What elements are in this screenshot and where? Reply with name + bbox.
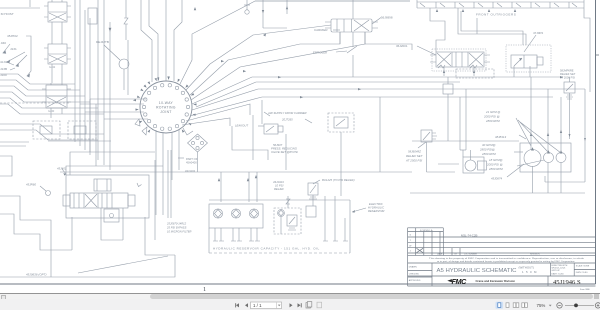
svg-text:CARRIER: CARRIER: [314, 28, 328, 32]
svg-text:75%: 75%: [537, 303, 546, 308]
svg-text:RELIEF SET: RELIEF SET: [560, 72, 576, 76]
svg-text:REJ42TB: REJ42TB: [96, 40, 109, 44]
svg-text:J13B: J13B: [0, 67, 7, 71]
svg-text:S: S: [410, 234, 412, 236]
svg-text:FMC: FMC: [452, 277, 468, 286]
svg-text:1 / 1: 1 / 1: [253, 303, 262, 308]
svg-text:GR2Y-UP: GR2Y-UP: [552, 270, 561, 272]
svg-text:Crane and Excavator Division: Crane and Excavator Division: [476, 279, 516, 283]
svg-text:DWN 7-3-80: DWN 7-3-80: [576, 272, 588, 274]
svg-text:45A0400: 45A0400: [186, 161, 197, 165]
svg-text:2000 PSI @: 2000 PSI @: [483, 115, 500, 119]
svg-text:or in part, of design and deta: or in part, of design and details contai…: [437, 260, 576, 263]
svg-text:PART OF: PART OF: [186, 157, 198, 161]
svg-text:U.S. NUMBER: U.S. NUMBER: [464, 254, 478, 256]
svg-text:45J0636 (OPT): 45J0636 (OPT): [26, 273, 47, 277]
svg-text:REVISION: REVISION: [530, 254, 540, 256]
svg-text:CHECKED: CHECKED: [409, 273, 420, 275]
svg-text:18 GPM@: 18 GPM@: [489, 158, 503, 162]
svg-text:DATE: DATE: [437, 253, 443, 256]
svg-text:21 GPM @: 21 GPM @: [485, 110, 500, 114]
svg-text:J100: J100: [0, 73, 7, 77]
svg-text:ROTATING: ROTATING: [156, 106, 176, 110]
svg-text:GJ40: GJ40: [48, 109, 55, 113]
svg-text:J131: J131: [10, 47, 17, 51]
svg-text:VALVE SET @65 PSI: VALVE SET @65 PSI: [271, 150, 298, 154]
svg-text::M HOIST: :M HOIST: [0, 12, 14, 16]
svg-text:58JMP6RE: 58JMP6RE: [560, 69, 574, 73]
svg-text:25 PSI BYPASS: 25 PSI BYPASS: [166, 226, 187, 230]
svg-text:25J0670-14R12: 25J0670-14R12: [166, 222, 187, 226]
svg-text:43J1102: 43J1102: [185, 169, 196, 173]
svg-text:2000 PSI @: 2000 PSI @: [486, 163, 503, 167]
svg-text:RELIEF: RELIEF: [274, 187, 284, 191]
svg-text:AIR SUPPLY FROM CARRIER: AIR SUPPLY FROM CARRIER: [267, 111, 307, 115]
svg-text:FORMULA: FORMULA: [420, 229, 433, 232]
svg-text:2800 PSI@: 2800 PSI@: [479, 148, 495, 152]
svg-text:LEAKOUT: LEAKOUT: [235, 124, 248, 128]
svg-text:M3L-74-C2B: M3L-74-C2B: [461, 233, 477, 237]
svg-text:APPROVED: APPROVED: [409, 279, 421, 282]
svg-text:FRONT OUTRIGGERS: FRONT OUTRIGGERS: [476, 13, 516, 17]
svg-text:BU1225 (TO PID RELIEF): BU1225 (TO PID RELIEF): [322, 178, 355, 182]
svg-text:This drawing is the property o: This drawing is the property of FMC Corp…: [429, 257, 585, 260]
svg-text:10 MICRON FILTER: 10 MICRON FILTER: [167, 230, 191, 234]
svg-text:45JR60: 45JR60: [26, 183, 36, 187]
svg-text:AT 2000 PSI: AT 2000 PSI: [560, 76, 575, 80]
svg-text:2800 RPM: 2800 RPM: [488, 167, 503, 171]
svg-text:J: J: [410, 251, 411, 253]
svg-text:DRAWN: DRAWN: [409, 265, 417, 268]
svg-text:EBRO6E8: EBRO6E8: [313, 51, 327, 55]
svg-text:RESERVOIR: RESERVOIR: [368, 209, 384, 213]
svg-text:38J8413: 38J8413: [495, 135, 506, 139]
svg-text:HYDRAULIC RESERVOIR CAPACITY: HYDRAULIC RESERVOIR CAPACITY - 151 GAL. …: [213, 247, 320, 251]
svg-text:1: 1: [203, 286, 206, 292]
svg-text:2800 RPM: 2800 RPM: [481, 152, 496, 156]
svg-text:45J401: 45J401: [57, 167, 67, 171]
svg-text:SCALE: NONE: SCALE: NONE: [576, 264, 590, 267]
svg-text:45JH02: 45JH02: [7, 34, 18, 38]
svg-text:20J7265: 20J7265: [281, 118, 293, 122]
svg-text:AT 2500 PSI: AT 2500 PSI: [405, 159, 422, 163]
svg-text:58J6048Z: 58J6048Z: [408, 150, 421, 154]
svg-text:47J0P2: 47J0P2: [533, 31, 544, 35]
svg-text:10-WAY: 10-WAY: [159, 101, 174, 105]
svg-text:JOINT: JOINT: [160, 110, 172, 114]
svg-text:1 5 0 M: 1 5 0 M: [522, 270, 537, 274]
svg-text:45J0674: 45J0674: [491, 177, 502, 181]
svg-text:T: T: [410, 240, 412, 242]
svg-text:A5 HYDRAULIC SCHEMATIC: A5 HYDRAULIC SCHEMATIC: [437, 268, 517, 274]
svg-text:45J1946 S: 45J1946 S: [553, 279, 581, 286]
svg-text:2800 RPM: 2800 RPM: [485, 119, 500, 123]
svg-text:56J6998: 56J6998: [381, 16, 393, 20]
svg-text:DATE 7-3-80: DATE 7-3-80: [552, 273, 565, 276]
svg-text:36J2001: 36J2001: [396, 44, 408, 48]
svg-text:Form 3886: Form 3886: [580, 289, 591, 291]
svg-text:.040: .040: [0, 41, 6, 45]
svg-text:GJ42: GJ42: [49, 65, 56, 69]
svg-text:30 GPM@: 30 GPM@: [482, 143, 496, 147]
svg-text:(WITHOUT): (WITHOUT): [519, 266, 534, 270]
svg-text:RELIEF SET: RELIEF SET: [406, 154, 423, 158]
svg-text:W: W: [409, 245, 412, 247]
